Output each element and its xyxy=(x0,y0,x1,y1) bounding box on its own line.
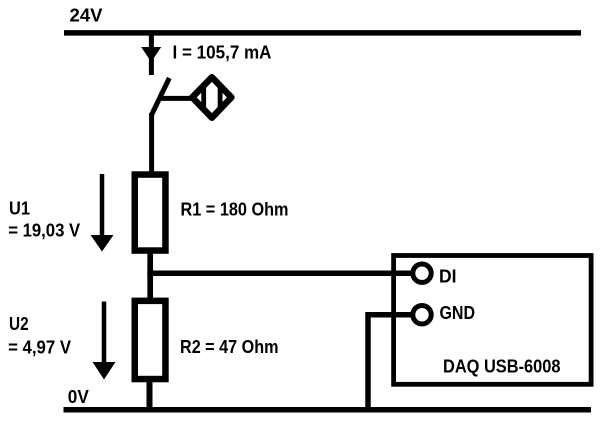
resistor R2 xyxy=(135,301,166,379)
terminal GND xyxy=(413,306,431,324)
voltage arrow U1 xyxy=(91,174,114,252)
wire R1 to R2 xyxy=(147,250,153,300)
svg-text:DAQ USB-6008: DAQ USB-6008 xyxy=(443,356,561,376)
svg-text:= 4,97 V: = 4,97 V xyxy=(8,337,71,357)
voltage arrow U2 xyxy=(93,302,116,380)
svg-text:0V: 0V xyxy=(68,387,89,407)
terminal DI xyxy=(413,264,431,282)
svg-text:GND: GND xyxy=(440,303,476,323)
wire 24V supply bus xyxy=(64,30,581,36)
svg-text:U1: U1 xyxy=(9,198,30,218)
wire switch to sensor xyxy=(159,96,196,101)
wire GND to 0V bus xyxy=(368,315,414,409)
wire junction to DI xyxy=(147,271,412,277)
svg-text:24V: 24V xyxy=(70,5,103,25)
current arrow I xyxy=(141,47,161,62)
svg-text:R1 = 180 Ohm: R1 = 180 Ohm xyxy=(181,200,289,220)
wire R2 to 0V bus xyxy=(147,378,153,410)
wire switch to R1 xyxy=(149,113,154,174)
svg-text:U2: U2 xyxy=(9,314,29,334)
switch S1 contact xyxy=(151,78,169,116)
DAQ box xyxy=(394,256,591,385)
wire 0V return bus xyxy=(64,407,592,413)
svg-text:= 19,03 V: = 19,03 V xyxy=(8,221,80,241)
svg-text:DI: DI xyxy=(439,266,457,286)
resistor R1 xyxy=(135,175,166,251)
svg-text:R2 = 47 Ohm: R2 = 47 Ohm xyxy=(180,337,279,357)
wire bus to switch xyxy=(149,33,154,75)
proximity sensor symbol xyxy=(192,75,231,120)
svg-text:I = 105,7 mA: I = 105,7 mA xyxy=(173,42,272,62)
